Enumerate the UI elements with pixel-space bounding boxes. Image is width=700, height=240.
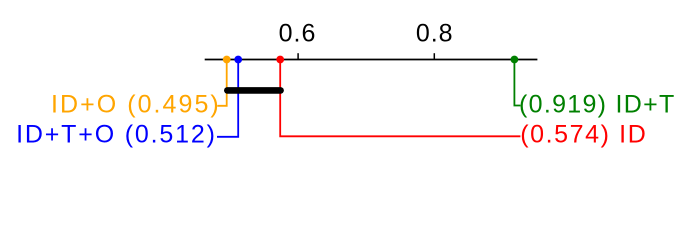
tick 0.6 [297, 53, 299, 59]
significance bar [227, 87, 280, 94]
svg-text:0.8: 0.8 [416, 20, 454, 48]
marker ID+T [511, 56, 519, 64]
svg-text:0.6: 0.6 [279, 20, 317, 48]
connector wire ID+O [217, 60, 226, 106]
svg-text:ID+T+O (0.512): ID+T+O (0.512) [16, 121, 217, 149]
connector wire ID+T+O [217, 60, 238, 137]
svg-text:ID+O (0.495): ID+O (0.495) [51, 91, 221, 119]
connector wire ID [280, 60, 520, 137]
svg-text:(0.919) ID+T: (0.919) ID+T [519, 91, 676, 119]
axis line [205, 59, 538, 61]
connector wire ID+T [514, 60, 520, 106]
tick 0.8 [433, 53, 435, 59]
svg-text:(0.574) ID: (0.574) ID [520, 121, 647, 149]
marker ID+O [223, 56, 231, 64]
marker ID [276, 56, 284, 64]
marker ID+T+O [234, 56, 242, 64]
